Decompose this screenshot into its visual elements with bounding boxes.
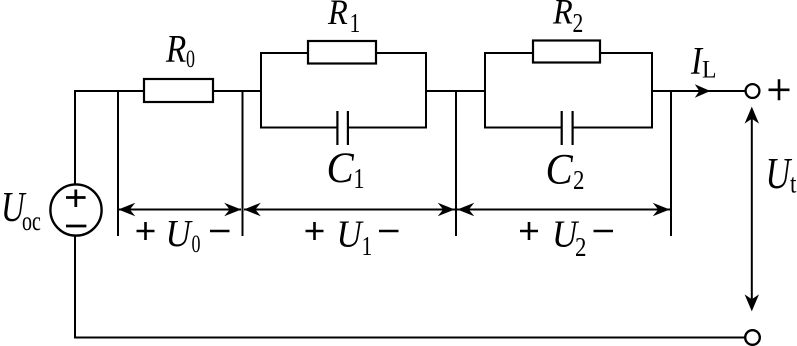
R1 bottom branch wires	[260, 127, 427, 129]
span arrow U1 right head	[438, 203, 455, 217]
svg-text:R: R	[552, 0, 573, 32]
source plus sign	[66, 190, 86, 208]
Ut arrow up head	[745, 107, 759, 124]
span arrow U1 shaft	[244, 209, 455, 211]
wire R1 block to R2 block	[426, 90, 485, 92]
output terminal bottom	[745, 330, 760, 345]
span arrow U2 shaft	[457, 209, 670, 211]
resistor R2	[533, 41, 600, 63]
tick line B	[242, 91, 244, 236]
tick line D	[670, 91, 672, 236]
wire R0 to R1 block	[213, 90, 261, 92]
svg-text:2: 2	[575, 233, 586, 262]
label + U1 - plus	[306, 222, 324, 240]
svg-text:1: 1	[362, 232, 373, 262]
label + U2 - minus	[594, 230, 614, 233]
span arrow U0 right head	[224, 203, 241, 217]
svg-text:1: 1	[354, 165, 365, 195]
svg-text:R: R	[327, 0, 348, 32]
source minus sign	[66, 225, 86, 228]
svg-text:0: 0	[186, 45, 195, 73]
R1 block right vertical	[425, 52, 427, 128]
svg-text:oc: oc	[22, 207, 41, 237]
span arrow U0 left head	[118, 203, 135, 217]
svg-text:1: 1	[350, 9, 361, 39]
svg-text:2: 2	[573, 9, 584, 39]
svg-text:L: L	[702, 56, 717, 84]
label + U1 - minus	[379, 230, 399, 233]
Ut arrow down head	[745, 294, 759, 311]
svg-text:C: C	[327, 145, 355, 192]
wire left rail below source	[74, 235, 76, 338]
wire bottom rail	[74, 337, 746, 339]
svg-text:U: U	[337, 212, 365, 255]
R1 block left vertical	[260, 52, 262, 128]
resistor R1	[308, 41, 376, 64]
label + U0 - minus	[210, 230, 230, 233]
span arrow U0 shaft	[119, 209, 241, 211]
svg-text:C: C	[546, 147, 574, 194]
span arrow U2 right head	[653, 203, 670, 217]
svg-text:t: t	[790, 170, 796, 199]
voltage source U_oc circle	[50, 184, 101, 235]
current arrow I_L head	[695, 84, 711, 97]
wire top rail segment source to R0	[75, 90, 144, 92]
R2 block left vertical	[484, 52, 486, 128]
wire left rail above source	[74, 90, 76, 185]
svg-text:0: 0	[192, 230, 201, 258]
R2 bottom branch wires	[484, 127, 653, 129]
svg-text:U: U	[166, 212, 194, 255]
output terminal top	[746, 84, 760, 98]
capacitor C1	[337, 111, 348, 145]
svg-text:R: R	[165, 27, 186, 70]
R2 top branch wires	[484, 52, 653, 54]
R2 block right vertical	[651, 52, 653, 128]
svg-text:2: 2	[573, 166, 584, 195]
wire R2 block to output terminal	[652, 90, 746, 92]
terminal plus sign	[769, 79, 790, 100]
capacitor C2	[562, 111, 573, 145]
tick line A	[117, 91, 119, 236]
span arrow U1 left head	[244, 203, 261, 217]
resistor R0	[144, 79, 213, 102]
span arrow U2 left head	[457, 203, 474, 217]
label + U2 - plus	[520, 222, 538, 240]
Ut double arrow shaft	[751, 117, 753, 301]
tick line C	[455, 91, 457, 236]
label + U0 - plus	[137, 222, 155, 240]
R1 top branch wires	[260, 52, 427, 54]
svg-text:U: U	[766, 149, 793, 198]
